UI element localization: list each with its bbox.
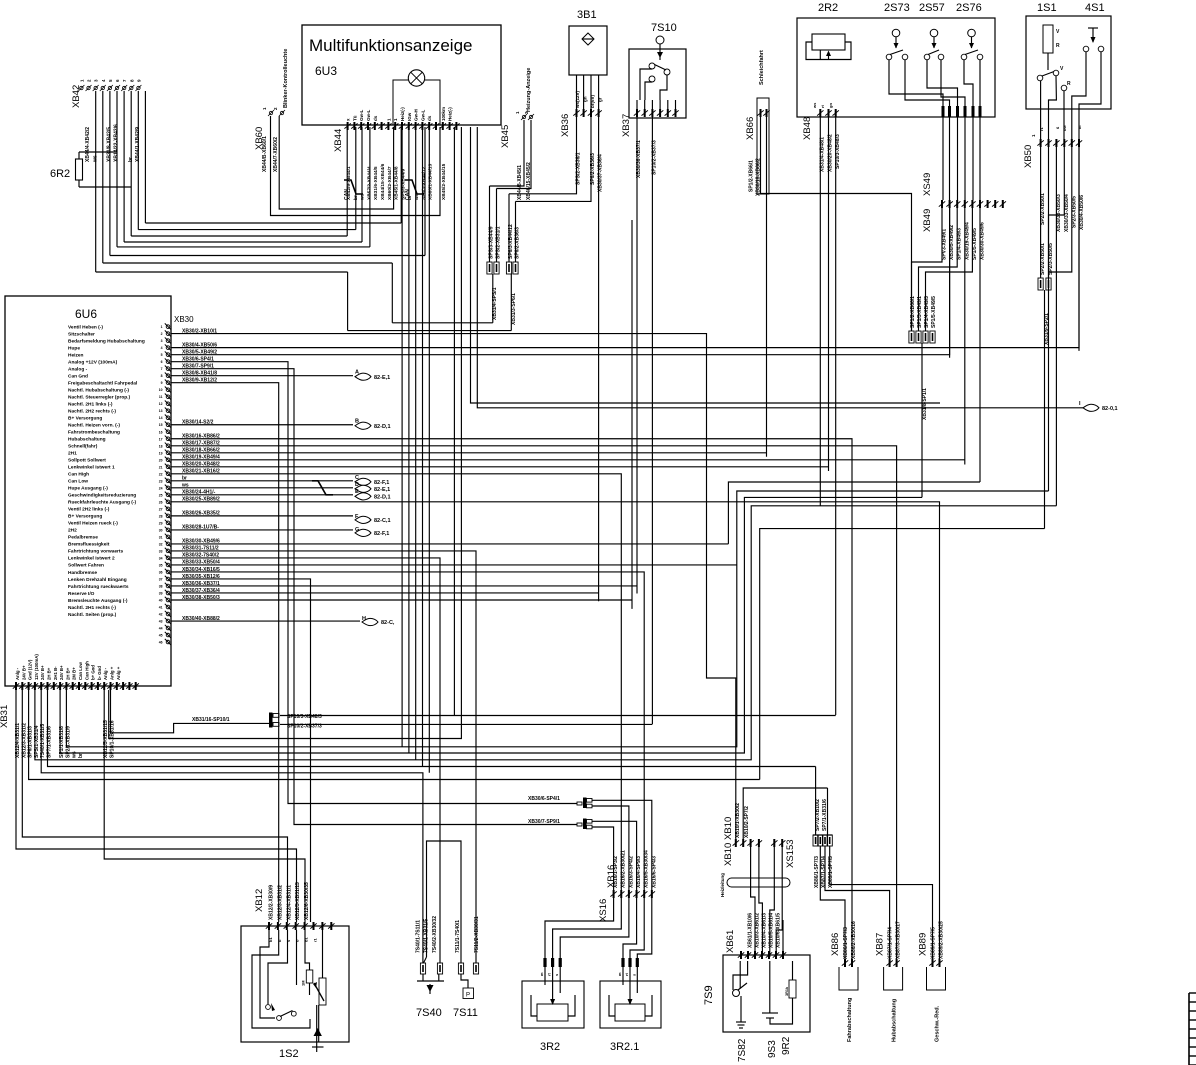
svg-text:XB50: XB50 bbox=[1023, 145, 1034, 168]
node F bbox=[240, 515, 353, 517]
svg-text:XS16: XS16 bbox=[598, 899, 609, 922]
svg-text:XB44/8-XB45/1: XB44/8-XB45/1 bbox=[517, 165, 523, 200]
svg-text:b- Gnd: b- Gnd bbox=[97, 666, 102, 680]
switch 2S73 bbox=[886, 29, 908, 60]
svg-text:B+ Versorgung: B+ Versorgung bbox=[68, 514, 102, 520]
connector XB42 bbox=[71, 79, 141, 108]
svg-text:XB89/2-XB30/25: XB89/2-XB30/25 bbox=[939, 921, 945, 959]
svg-text:2H B+: 2H B+ bbox=[65, 667, 70, 680]
svg-text:7S40/1-7S11/1: 7S40/1-7S11/1 bbox=[416, 920, 422, 953]
svg-text:Heizen: Heizen bbox=[68, 352, 84, 358]
svg-text:82-C,1: 82-C,1 bbox=[374, 518, 391, 524]
svg-text:7S11: 7S11 bbox=[453, 1007, 478, 1019]
svg-text:6R2: 6R2 bbox=[50, 168, 70, 180]
svg-text:38: 38 bbox=[159, 584, 163, 588]
signal labels above XB31 bbox=[15, 654, 121, 680]
svg-text:gn: gn bbox=[583, 96, 588, 102]
svg-text:39: 39 bbox=[159, 591, 163, 595]
connector XB48 bbox=[802, 102, 841, 172]
svg-text:2M B+: 2M B+ bbox=[72, 667, 77, 680]
svg-text:7S40/2-XB30/32: 7S40/2-XB30/32 bbox=[432, 916, 438, 953]
svg-text:Sitzschalter: Sitzschalter bbox=[68, 331, 95, 337]
svg-text:2H B+: 2H B+ bbox=[47, 667, 52, 680]
heater cable sheath Heizleitung bbox=[720, 873, 790, 897]
wire XB30/35 to XB12/6 bbox=[240, 579, 311, 922]
connector XB60 Blinker-Kontrolleuchte bbox=[254, 49, 289, 172]
svg-text:24V B+: 24V B+ bbox=[59, 665, 64, 680]
svg-text:82-F,1: 82-F,1 bbox=[374, 480, 389, 486]
svg-text:9R2: 9R2 bbox=[781, 1036, 792, 1055]
wire XB30/9 to XB12/2 bbox=[240, 383, 279, 922]
svg-text:gn: gn bbox=[828, 103, 833, 108]
wire XB30/31 to 7S11 bbox=[240, 551, 476, 963]
wire XB30/4 to XB50/6 bbox=[240, 147, 1079, 348]
potentiometer 2R2 symbol bbox=[806, 34, 851, 60]
svg-text:82-C,: 82-C, bbox=[381, 620, 395, 626]
svg-text:SP2/3-XB50/5: SP2/3-XB50/5 bbox=[1072, 196, 1078, 228]
svg-text:XB61/1-XB10/6: XB61/1-XB10/6 bbox=[748, 913, 754, 948]
svg-text:Ventil Heizen rueck (-): Ventil Heizen rueck (-) bbox=[68, 521, 118, 527]
svg-text:Gw-L: Gw-L bbox=[359, 110, 364, 121]
svg-text:Rueckfahrleuchte Ausgang (-): Rueckfahrleuchte Ausgang (-) bbox=[68, 500, 136, 506]
svg-text:SP1/5-XB49/5: SP1/5-XB49/5 bbox=[931, 296, 937, 328]
svg-text:3R1k: 3R1k bbox=[785, 986, 789, 996]
svg-text:Geschwindigkeitsreduzierung: Geschwindigkeitsreduzierung bbox=[68, 493, 136, 499]
svg-text:XB31/16-SP10/1: XB31/16-SP10/1 bbox=[192, 717, 230, 723]
svg-text:m: m bbox=[617, 972, 622, 976]
connector XB10 upper bbox=[723, 803, 796, 868]
svg-text:XB30/6-SP4/1: XB30/6-SP4/1 bbox=[528, 796, 560, 802]
svg-text:Gnd (12V): Gnd (12V) bbox=[28, 659, 33, 680]
svg-text:b+ Gnd: b+ Gnd bbox=[91, 665, 96, 680]
svg-text:2H1: 2H1 bbox=[68, 451, 77, 457]
svg-text:82-D,1: 82-D,1 bbox=[374, 495, 391, 501]
svg-text:XB86/2-XB30/16: XB86/2-XB30/16 bbox=[851, 921, 857, 959]
svg-text:Pedalbremse: Pedalbremse bbox=[68, 535, 98, 541]
svg-text:XB57/2-XB44/4: XB57/2-XB44/4 bbox=[366, 166, 372, 200]
wires XB10 to XB61 bbox=[743, 788, 827, 957]
connector XB44 bbox=[333, 122, 460, 152]
switch unit 7S9 bbox=[703, 955, 810, 1032]
node A bbox=[240, 375, 353, 377]
svg-text:Heiz(-): Heiz(-) bbox=[400, 107, 405, 121]
svg-text:31: 31 bbox=[159, 535, 163, 539]
splice SP9 bbox=[528, 819, 592, 830]
svg-text:7S11/2-XB30/31: 7S11/2-XB30/31 bbox=[474, 916, 480, 953]
svg-text:Hupe Ausgang (-): Hupe Ausgang (-) bbox=[68, 486, 108, 492]
connector XB31 bbox=[0, 682, 139, 728]
wires 2R2 box to XB49 bbox=[943, 117, 980, 200]
wire XB30/37 to XB36/4 bbox=[240, 592, 599, 594]
internal circuit 1S2 bbox=[252, 930, 326, 1052]
svg-text:20: 20 bbox=[159, 458, 163, 462]
indicator lamp bbox=[393, 70, 440, 125]
svg-text:7S10: 7S10 bbox=[651, 22, 677, 34]
connector XS16 XB16 bbox=[598, 850, 657, 922]
svg-text:Can High: Can High bbox=[68, 472, 89, 478]
pin color labels XB12 bbox=[268, 937, 318, 942]
wire XB30/20 to XB48/2 bbox=[240, 466, 829, 468]
wire node 82-0,1 bbox=[471, 127, 1118, 412]
resistor unit 2R2 with switches 2S73 2S57 2S76 bbox=[797, 2, 995, 117]
svg-text:IGw: IGw bbox=[407, 112, 412, 121]
svg-text:ds: ds bbox=[373, 115, 378, 121]
connector XB12 bbox=[254, 882, 335, 930]
sensor 3B1 bbox=[569, 9, 607, 75]
svg-text:17: 17 bbox=[159, 437, 163, 441]
svg-text:XB45/2-XB44/15: XB45/2-XB44/15 bbox=[441, 163, 447, 200]
svg-text:XB12: XB12 bbox=[254, 889, 265, 912]
svg-text:br: br bbox=[353, 195, 359, 200]
svg-text:XB31/6-XB44/5: XB31/6-XB44/5 bbox=[373, 166, 379, 200]
svg-text:XB60/1-XB44/13: XB60/1-XB44/13 bbox=[428, 163, 434, 200]
svg-text:46: 46 bbox=[159, 641, 163, 645]
svg-text:14: 14 bbox=[159, 416, 163, 420]
controller 6U6 bbox=[5, 296, 194, 686]
svg-text:XS153: XS153 bbox=[785, 839, 796, 868]
svg-text:XB89: XB89 bbox=[918, 933, 929, 956]
svg-text:Anlg +: Anlg + bbox=[116, 666, 121, 680]
svg-text:1S1: 1S1 bbox=[1037, 2, 1057, 14]
svg-text:XB44/B-XB60/1: XB44/B-XB60/1 bbox=[262, 136, 268, 172]
wire XB30/6 to SP4 bbox=[240, 362, 577, 804]
splice SP7 bbox=[813, 767, 933, 960]
wires XB16 to 3R2 3R2.1 bbox=[545, 898, 652, 958]
node G bbox=[240, 529, 353, 531]
svg-text:XB45: XB45 bbox=[500, 125, 511, 148]
switch 7S11 bbox=[453, 916, 480, 1019]
svg-text:B+ Versorgung: B+ Versorgung bbox=[68, 416, 102, 422]
lever symbol 1S1 bbox=[1037, 25, 1071, 91]
svg-text:XB10/3-XB61/2: XB10/3-XB61/2 bbox=[755, 913, 761, 948]
svg-text:Multifunktionsanzeige: Multifunktionsanzeige bbox=[309, 36, 472, 55]
svg-text:XB42: XB42 bbox=[71, 85, 82, 108]
svg-text:SP1/2-XB66/1: SP1/2-XB66/1 bbox=[749, 160, 755, 192]
svg-text:7S11/1-7S40/1: 7S11/1-7S40/1 bbox=[455, 920, 461, 953]
connector XB50 bbox=[1023, 125, 1085, 232]
svg-text:6: 6 bbox=[161, 360, 163, 364]
svg-text:26: 26 bbox=[159, 500, 163, 504]
svg-text:XB87/1-SP7/4: XB87/1-SP7/4 bbox=[821, 856, 827, 888]
svg-text:Nachtl. 2H1 links (-): Nachtl. 2H1 links (-) bbox=[68, 402, 113, 408]
svg-text:2S73: 2S73 bbox=[884, 2, 910, 14]
wire labels XB31 bbox=[15, 720, 116, 759]
svg-text:Fahrtrichtung rueckwaerts: Fahrtrichtung rueckwaerts bbox=[68, 584, 129, 590]
wires XB66 bbox=[761, 117, 912, 457]
switch 2S76 bbox=[961, 29, 983, 60]
svg-text:XB31: XB31 bbox=[0, 705, 10, 728]
svg-text:Blinker-Kontrolleuchte: Blinker-Kontrolleuchte bbox=[283, 49, 289, 108]
svg-text:2H1 B-: 2H1 B- bbox=[53, 666, 58, 680]
svg-text:3B1: 3B1 bbox=[577, 9, 597, 21]
svg-text:1M: 1M bbox=[301, 980, 306, 986]
staircase wires XB31 bbox=[16, 491, 1056, 963]
wire XB30/17 to XB87 bbox=[240, 446, 897, 959]
svg-text:Fahrabschaltung: Fahrabschaltung bbox=[847, 998, 853, 1042]
wire XB30/38 to XB50/3 bbox=[240, 599, 632, 601]
splice SP10 bbox=[111, 127, 836, 733]
switch 7S40 bbox=[416, 841, 462, 1019]
svg-text:Reserve I/O: Reserve I/O bbox=[68, 591, 95, 597]
svg-text:2S76: 2S76 bbox=[956, 2, 982, 14]
svg-text:43: 43 bbox=[159, 620, 163, 624]
svg-text:Gw-L: Gw-L bbox=[420, 110, 425, 121]
svg-text:Can High: Can High bbox=[84, 661, 89, 680]
svg-text:Ventil 2H2 links (-): Ventil 2H2 links (-) bbox=[68, 507, 110, 513]
switch 2S57 bbox=[924, 29, 944, 60]
svg-text:XB10/2-SP7/2: XB10/2-SP7/2 bbox=[744, 806, 750, 838]
svg-text:30: 30 bbox=[159, 528, 163, 532]
svg-text:Analog -: Analog - bbox=[68, 366, 88, 372]
svg-text:41: 41 bbox=[159, 606, 163, 610]
svg-text:XB44/7-XB60/2: XB44/7-XB60/2 bbox=[273, 137, 279, 172]
svg-text:SP6/3-XB44/12: SP6/3-XB44/12 bbox=[421, 166, 427, 200]
wire XB30/30 to XB49/6 bbox=[240, 543, 728, 545]
wires XB30 rows bbox=[172, 334, 241, 621]
svg-text:2H2: 2H2 bbox=[68, 528, 77, 534]
svg-text:Nachtl. Steuerregler (prop.): Nachtl. Steuerregler (prop.) bbox=[68, 395, 131, 401]
svg-text:XB30/33-XB50/4: XB30/33-XB50/4 bbox=[1064, 194, 1070, 232]
svg-text:21: 21 bbox=[159, 465, 163, 469]
svg-text:15: 15 bbox=[159, 423, 163, 427]
svg-text:SP2/2-XB50/1: SP2/2-XB50/1 bbox=[1040, 243, 1046, 275]
svg-text:br(6V): br(6V) bbox=[590, 94, 595, 108]
svg-text:1: 1 bbox=[161, 325, 163, 329]
svg-text:100km: 100km bbox=[441, 107, 446, 121]
svg-text:Gw-L: Gw-L bbox=[366, 110, 371, 121]
svg-text:XB44: XB44 bbox=[333, 129, 344, 152]
svg-text:SPS/2-XB31/1: SPS/2-XB31/1 bbox=[496, 226, 502, 259]
wire XB30/32 to 7S40 bbox=[240, 558, 440, 963]
svg-text:Tü: Tü bbox=[352, 115, 357, 121]
svg-text:4: 4 bbox=[161, 346, 163, 350]
svg-text:Anlg -: Anlg - bbox=[15, 667, 20, 680]
svg-text:2R2: 2R2 bbox=[818, 2, 838, 14]
table fragment bottom right bbox=[1189, 993, 1196, 1065]
svg-text:CAN: CAN bbox=[344, 189, 350, 200]
wire labels XB30 bbox=[181, 328, 220, 621]
svg-text:Schnell(fahr): Schnell(fahr) bbox=[68, 444, 98, 450]
svg-text:32: 32 bbox=[159, 542, 163, 546]
svg-text:XB86: XB86 bbox=[830, 933, 841, 956]
svg-text:3R2.1: 3R2.1 bbox=[610, 1041, 639, 1053]
svg-text:ws(12V): ws(12V) bbox=[575, 90, 580, 109]
svg-text:18: 18 bbox=[159, 444, 163, 448]
svg-text:Nachtl. Seiten (prop.): Nachtl. Seiten (prop.) bbox=[68, 612, 117, 618]
pin function labels XB44 bbox=[346, 107, 453, 121]
svg-text:XB10/1-XB30/2: XB10/1-XB30/2 bbox=[735, 803, 741, 838]
wires SP4 SP9 to XB16 bbox=[592, 800, 652, 890]
svg-text:2S57: 2S57 bbox=[919, 2, 945, 14]
svg-text:82-E,1: 82-E,1 bbox=[374, 375, 390, 381]
wires XB49 down bbox=[760, 208, 1045, 780]
svg-text:7S82: 7S82 bbox=[737, 1038, 748, 1062]
connector XB89 bbox=[918, 921, 946, 1042]
wires switches to pins bbox=[889, 60, 980, 106]
svg-text:7S9: 7S9 bbox=[703, 985, 715, 1005]
svg-text:XS49: XS49 bbox=[922, 173, 933, 196]
wire XB30/16 to XB86 bbox=[240, 439, 852, 959]
wire XB30/5 to XB49/2 bbox=[240, 208, 950, 355]
wires XB48 down bbox=[820, 117, 835, 715]
svg-text:XB86/1-SP7/3: XB86/1-SP7/3 bbox=[843, 927, 849, 959]
svg-text:42: 42 bbox=[159, 613, 163, 617]
svg-text:m: m bbox=[1077, 125, 1082, 129]
svg-text:XB36: XB36 bbox=[560, 114, 571, 137]
svg-text:44: 44 bbox=[159, 627, 163, 631]
svg-text:XB87: XB87 bbox=[875, 933, 886, 956]
svg-text:XB30: XB30 bbox=[174, 315, 194, 324]
splice SP6 bbox=[348, 224, 521, 331]
connector XB66 Schleichfahrt bbox=[745, 50, 770, 196]
svg-text:br: br bbox=[78, 753, 84, 758]
key switch 1S1 and button 4S1 bbox=[1026, 2, 1111, 109]
internal pins 2R2 box bbox=[942, 106, 982, 117]
svg-text:XB12/6-XB30/35: XB12/6-XB30/35 bbox=[304, 882, 310, 920]
svg-text:bG: bG bbox=[1062, 125, 1067, 131]
svg-text:Hubabschaltung: Hubabschaltung bbox=[68, 437, 106, 443]
svg-text:Can Low: Can Low bbox=[68, 479, 88, 485]
svg-text:37: 37 bbox=[159, 577, 163, 581]
splice SP5 bbox=[392, 226, 501, 323]
svg-text:7: 7 bbox=[161, 367, 163, 371]
node E bbox=[240, 494, 353, 496]
svg-text:Lenkwinkel Istwert 1: Lenkwinkel Istwert 1 bbox=[68, 465, 115, 471]
wires XB60 to XB44 bbox=[271, 116, 441, 216]
svg-text:6U3: 6U3 bbox=[315, 64, 337, 78]
wire XB30/19 to XB49/4 bbox=[240, 459, 965, 461]
svg-text:Lenken Drehzahl Eingang: Lenken Drehzahl Eingang bbox=[68, 577, 127, 583]
connector XB30 pins bbox=[159, 323, 171, 645]
connector XB61 bbox=[725, 913, 786, 959]
svg-text:Ventil Heben (-): Ventil Heben (-) bbox=[68, 324, 103, 330]
svg-text:Bremsfluessigkeit: Bremsfluessigkeit bbox=[68, 542, 110, 548]
svg-text:SP6/2-XB36/3: SP6/2-XB36/3 bbox=[515, 227, 521, 259]
svg-text:12V (100mA): 12V (100mA) bbox=[34, 654, 39, 680]
svg-text:Hubabschaltung: Hubabschaltung bbox=[892, 999, 898, 1042]
splice SP2 bbox=[1038, 243, 1054, 529]
svg-text:XB87/1-SP7/4: XB87/1-SP7/4 bbox=[888, 927, 894, 959]
svg-text:CAN: CAN bbox=[405, 189, 411, 200]
wire XB30/36 to XB37/1 bbox=[240, 585, 637, 587]
svg-text:XB12/2-XB30/9: XB12/2-XB30/9 bbox=[269, 885, 275, 920]
svg-text:XB10: XB10 bbox=[723, 843, 734, 866]
svg-text:XB10/5-XB61/4: XB10/5-XB61/4 bbox=[769, 913, 775, 948]
svg-text:ws: ws bbox=[812, 102, 817, 109]
svg-text:SP1/2-XB66/1: SP1/2-XB66/1 bbox=[910, 296, 916, 328]
svg-text:10: 10 bbox=[159, 388, 163, 392]
svg-text:SP2/3-XB50/5: SP2/3-XB50/5 bbox=[1048, 243, 1054, 275]
labels 7S82 9S3 9R2 bbox=[737, 1036, 792, 1062]
wire XB30/33 to XB50/4 bbox=[240, 564, 737, 566]
resistor 6R2 bbox=[50, 152, 131, 187]
wire bus XB42 to XB44 bbox=[96, 91, 425, 323]
svg-text:XB31/8-SP1/1: XB31/8-SP1/1 bbox=[922, 388, 928, 420]
svg-text:Anlg +: Anlg + bbox=[110, 666, 115, 680]
svg-text:29: 29 bbox=[159, 521, 163, 525]
svg-text:XB89/1-SP7/5: XB89/1-SP7/5 bbox=[828, 856, 834, 888]
svg-text:P: P bbox=[466, 993, 470, 999]
svg-text:XB10/6-XB61/5: XB10/6-XB61/5 bbox=[776, 913, 782, 948]
splice SP1 bbox=[909, 296, 937, 498]
svg-text:Heiz(-): Heiz(-) bbox=[448, 107, 453, 121]
svg-text:Gw-H: Gw-H bbox=[414, 109, 419, 121]
svg-text:Handbremse: Handbremse bbox=[68, 570, 97, 576]
svg-text:24V B+: 24V B+ bbox=[40, 665, 45, 680]
heater resistor 3R2 bbox=[522, 958, 584, 1053]
svg-text:ws: ws bbox=[72, 751, 78, 759]
svg-text:36: 36 bbox=[159, 570, 163, 574]
svg-text:5: 5 bbox=[161, 353, 163, 357]
svg-text:XB45/1-XB44/8: XB45/1-XB44/8 bbox=[394, 166, 400, 200]
svg-text:XB49: XB49 bbox=[922, 209, 933, 232]
svg-text:b1: b1 bbox=[304, 937, 309, 942]
svg-text:XB44/15-XB44/6: XB44/15-XB44/6 bbox=[380, 163, 386, 200]
svg-text:Anlg -: Anlg - bbox=[103, 667, 108, 680]
switch 7S10 bbox=[629, 22, 686, 118]
connector XS49 XB49 bbox=[922, 173, 1006, 260]
wire XB30/21 to XB16/2 bbox=[240, 474, 621, 890]
svg-text:SP1/3-XB49/1: SP1/3-XB49/1 bbox=[917, 296, 923, 328]
svg-text:Nachtl. Hubabschaltung (-): Nachtl. Hubabschaltung (-) bbox=[68, 387, 129, 393]
svg-text:82-E,1: 82-E,1 bbox=[374, 487, 390, 493]
pin function labels 6U6 bbox=[68, 324, 145, 617]
svg-text:Fahrstrombeschaltung: Fahrstrombeschaltung bbox=[68, 430, 120, 436]
svg-text:Lenkwinkel Istwert 2: Lenkwinkel Istwert 2 bbox=[68, 556, 115, 562]
svg-text:Schleichfahrt: Schleichfahrt bbox=[759, 50, 765, 85]
svg-text:24V B+: 24V B+ bbox=[21, 665, 26, 680]
wires XB50 down bbox=[632, 147, 1079, 609]
svg-text:Sollwert Fahren: Sollwert Fahren bbox=[68, 563, 104, 569]
svg-text:XB31/9-SP2/1: XB31/9-SP2/1 bbox=[1044, 313, 1050, 345]
connector XB87 bbox=[875, 921, 903, 1042]
wire labels XB42 bbox=[85, 124, 141, 163]
svg-text:SP10/3-XB48/3: SP10/3-XB48/3 bbox=[287, 714, 322, 720]
svg-text:24: 24 bbox=[159, 486, 163, 490]
svg-text:Hupe: Hupe bbox=[68, 345, 80, 351]
svg-text:XB30/4-XB50/6: XB30/4-XB50/6 bbox=[1079, 195, 1085, 230]
heater resistor 3R2.1 bbox=[600, 958, 661, 1053]
svg-text:XB16/5-XB30/34: XB16/5-XB30/34 bbox=[644, 850, 650, 888]
svg-text:XB10/4-XB61/3: XB10/4-XB61/3 bbox=[762, 913, 768, 948]
seat switch unit 1S2 bbox=[241, 926, 349, 1060]
connector XB45 Heizung-Anzeige bbox=[500, 68, 534, 200]
wire XB30/7 to SP9 bbox=[240, 369, 577, 825]
CAN twisted pair symbols bbox=[344, 180, 424, 200]
svg-text:XB44/4-XB42/2: XB44/4-XB42/2 bbox=[85, 127, 91, 162]
svg-text:XB61: XB61 bbox=[725, 930, 736, 953]
wires 1S1 4S1 to XB50 bbox=[1041, 52, 1101, 139]
svg-text:XB30/7-SP9/1: XB30/7-SP9/1 bbox=[528, 819, 560, 825]
display unit 6U3 Multifunktionsanzeige bbox=[302, 25, 501, 125]
svg-text:Nachtl. 2H2 rechts (-): Nachtl. 2H2 rechts (-) bbox=[68, 409, 116, 415]
svg-text:XB31/4-SPS/1: XB31/4-SPS/1 bbox=[492, 287, 498, 320]
svg-text:1S2: 1S2 bbox=[279, 1048, 299, 1060]
svg-text:SP6/3-XB44/12: SP6/3-XB44/12 bbox=[508, 224, 514, 259]
svg-text:XB60/2-XB44/7: XB60/2-XB44/7 bbox=[387, 166, 393, 200]
svg-text:22: 22 bbox=[159, 472, 163, 476]
svg-text:Sollpott Sollwert: Sollpott Sollwert bbox=[68, 458, 106, 464]
node B bbox=[240, 424, 353, 426]
svg-text:9: 9 bbox=[161, 381, 163, 385]
svg-text:45: 45 bbox=[159, 634, 163, 638]
svg-text:XB89/1-SP7/5: XB89/1-SP7/5 bbox=[931, 927, 937, 959]
svg-text:40: 40 bbox=[159, 598, 163, 602]
svg-text:XB87/3-XB30/17: XB87/3-XB30/17 bbox=[896, 921, 902, 959]
svg-text:Analog +12V (100mA): Analog +12V (100mA) bbox=[68, 359, 118, 365]
svg-text:Nachtl. Heizen vorn. (-): Nachtl. Heizen vorn. (-) bbox=[68, 423, 120, 429]
svg-text:82-F,1: 82-F,1 bbox=[374, 531, 389, 537]
